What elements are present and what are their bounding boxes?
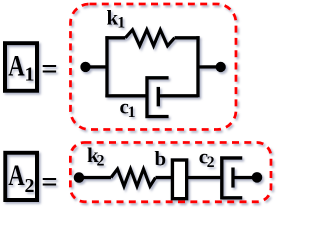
damper c1 piston rod to right vertical [158,94,198,97]
wire: top branch right segment [175,36,200,39]
enclosure box (red dashed) around model A2 [70,143,271,202]
damper c2 (cylinder wall and arms) [220,156,242,199]
svg-text:b: b [155,147,167,171]
wire: bottom branch left segment [105,94,147,97]
svg-text:2: 2 [207,154,215,171]
wire: right vertical of parallel loop [196,36,199,97]
svg-text:=: = [41,53,58,85]
label text A1 [8,48,34,85]
node: left terminal of A1 network [80,62,90,72]
enclosure box (red dashed) around model A1 [71,4,237,130]
wire: left terminal to spring k2 [79,176,111,179]
node: left terminal of A2 network [74,172,85,183]
svg-text:1: 1 [25,64,35,86]
damper c1 (cylinder wall and arms) [145,76,168,118]
wire: block b to damper c2 [187,176,222,179]
label box A1 [5,43,37,91]
spring k1 [125,30,174,46]
label k1 [107,6,126,32]
damper c2 piston rod to right terminal [233,176,257,179]
damper c2 piston plate [231,168,234,188]
svg-text:1: 1 [128,104,136,121]
svg-text:2: 2 [25,175,35,197]
label c2 [199,145,215,171]
damper c1 piston plate [157,87,160,107]
wire: top branch left segment [105,36,125,39]
svg-text:A: A [8,158,25,192]
label box A2 [5,153,37,200]
node: right terminal of A1 network [216,62,226,72]
wire: left vertical of parallel loop [105,36,108,97]
block b [172,160,186,199]
svg-text:2: 2 [97,153,105,170]
wire: right vertical to right terminal [198,65,221,68]
spring k2 [111,169,156,186]
svg-text:A: A [8,48,25,82]
svg-text:=: = [41,166,58,198]
wire: spring k2 to block b [156,176,173,179]
wire: left terminal to parallel loop [86,65,108,68]
svg-text:1: 1 [117,15,125,32]
node: right terminal of A2 network [252,172,263,183]
label text A2 [8,158,34,197]
label c1 [120,94,136,120]
label k2 [87,143,105,169]
